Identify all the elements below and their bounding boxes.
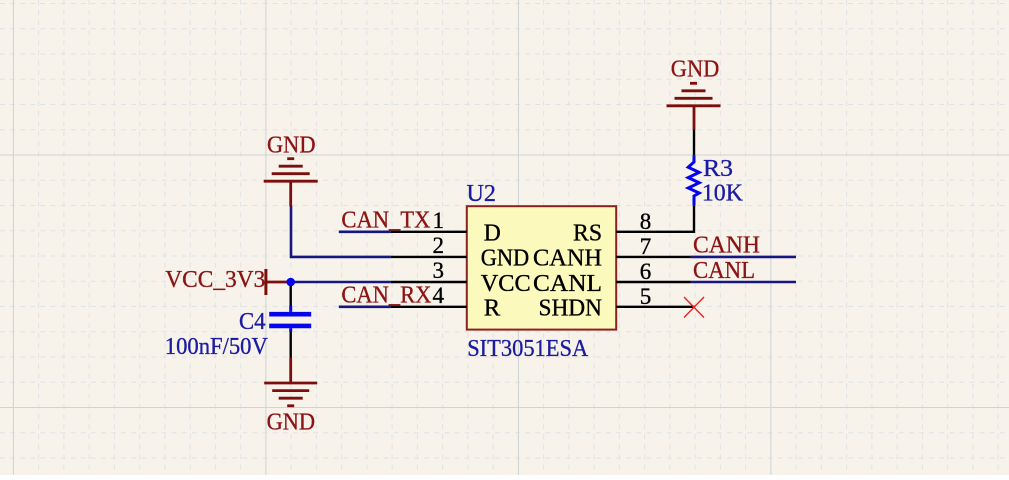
svg-text:8: 8 xyxy=(640,209,652,234)
svg-text:RS: RS xyxy=(573,220,602,247)
svg-text:D: D xyxy=(484,220,501,247)
svg-text:4: 4 xyxy=(433,283,445,308)
svg-text:6: 6 xyxy=(640,259,652,284)
svg-text:2: 2 xyxy=(433,233,445,258)
svg-text:7: 7 xyxy=(640,234,652,259)
svg-text:R3: R3 xyxy=(703,155,733,182)
svg-text:GND: GND xyxy=(481,245,530,272)
svg-text:10K: 10K xyxy=(702,180,743,207)
svg-text:CANL: CANL xyxy=(533,270,602,297)
svg-text:GND: GND xyxy=(267,132,316,159)
svg-text:CANH: CANH xyxy=(533,245,602,272)
svg-text:GND: GND xyxy=(267,409,316,436)
svg-text:R: R xyxy=(484,295,501,322)
svg-text:U2: U2 xyxy=(467,180,497,207)
svg-text:CAN_TX: CAN_TX xyxy=(341,207,430,234)
svg-text:GND: GND xyxy=(671,56,720,83)
svg-text:SIT3051ESA: SIT3051ESA xyxy=(467,335,588,362)
svg-text:100nF/50V: 100nF/50V xyxy=(165,333,268,360)
svg-text:VCC_3V3: VCC_3V3 xyxy=(165,266,265,293)
svg-text:3: 3 xyxy=(433,258,445,283)
svg-text:VCC: VCC xyxy=(481,270,531,297)
svg-text:1: 1 xyxy=(433,208,445,233)
svg-text:CANH: CANH xyxy=(693,232,760,259)
svg-text:5: 5 xyxy=(640,284,652,309)
svg-text:SHDN: SHDN xyxy=(539,295,603,322)
svg-text:CANL: CANL xyxy=(693,257,755,284)
svg-text:CAN_RX: CAN_RX xyxy=(341,282,431,309)
svg-text:C4: C4 xyxy=(239,308,266,335)
